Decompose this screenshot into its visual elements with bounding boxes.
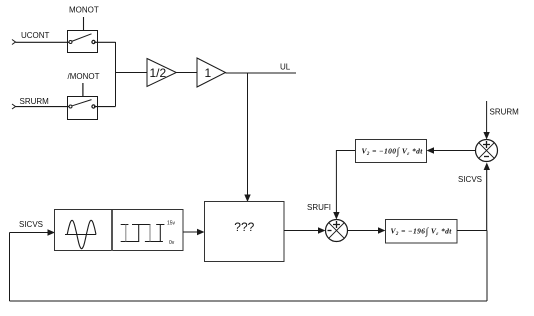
arrowhead into top summer bottom bbox=[484, 163, 490, 171]
wire join to amp A1 bbox=[116, 72, 148, 74]
wire SRURM input bbox=[16, 106, 70, 108]
wire oscillator to U1 bbox=[183, 231, 199, 233]
integrator block V2 = -196 bbox=[386, 220, 458, 244]
svg-text:SRURM: SRURM bbox=[490, 108, 520, 117]
arrowhead into summer SRUFI top bbox=[333, 212, 339, 220]
svg-text:15v: 15v bbox=[167, 221, 176, 227]
svg-text:1: 1 bbox=[205, 66, 212, 80]
svg-text:SRURM: SRURM bbox=[20, 97, 50, 106]
pulse waveform bbox=[121, 225, 165, 242]
svg-text:UL: UL bbox=[280, 63, 291, 72]
summer SRUFI bbox=[326, 220, 348, 242]
svg-text:UCONT: UCONT bbox=[21, 31, 50, 40]
summer top (SRURM - SICVS) bbox=[476, 140, 498, 162]
wire top integrator to summer SRUFI bbox=[336, 151, 356, 214]
wire SICVS to oscillator bbox=[10, 232, 50, 234]
svg-text:0v: 0v bbox=[169, 240, 175, 246]
input port SRURM bbox=[12, 104, 16, 109]
integrator block V2 = -100 bbox=[356, 140, 427, 163]
sine axis bbox=[65, 234, 96, 236]
wire MONOT control bbox=[83, 17, 85, 31]
plus sign on summer SRUFI bbox=[333, 221, 340, 228]
amp A2 gain 1 bbox=[197, 58, 226, 87]
amp A1 gain 1/2 bbox=[147, 59, 176, 87]
arrowhead into U1 left bbox=[197, 229, 205, 235]
oscillator block bbox=[55, 210, 184, 251]
wire integrator V2 output to SICVS node bbox=[457, 230, 487, 232]
sine wave bbox=[67, 220, 96, 248]
wire SICVS feedback right vertical bbox=[486, 231, 488, 302]
wire SICVS feedback left vertical bbox=[9, 233, 11, 302]
switch S1 (MONOT) bbox=[68, 31, 98, 53]
svg-text:/MONOT: /MONOT bbox=[68, 72, 100, 81]
switch S2 (/MONOT) bbox=[68, 97, 98, 120]
wire UL down to block ??? bbox=[247, 73, 249, 196]
wire U1 output to summer SRUFI bbox=[284, 230, 320, 232]
wire join vertical bbox=[115, 42, 117, 107]
minus sign on summer SRUFI bbox=[328, 230, 332, 232]
arrowhead into summer SRUFI left bbox=[318, 227, 326, 233]
arrowhead into integrator box 2 bbox=[378, 227, 386, 233]
wire SICVS feedback bottom bbox=[10, 300, 488, 302]
svg-text:SICVS: SICVS bbox=[19, 220, 43, 229]
svg-text:???: ??? bbox=[234, 220, 254, 234]
minus sign on top summer bbox=[484, 156, 489, 158]
svg-text:1/2: 1/2 bbox=[150, 66, 167, 80]
wire S1 output bbox=[94, 41, 116, 43]
wire S2 output bbox=[94, 106, 116, 108]
arrowhead into ??? top bbox=[244, 195, 250, 203]
arrowhead into integrator box 1 right bbox=[427, 147, 435, 153]
wire /MONOT control bbox=[82, 83, 84, 97]
svg-text:SRUFI: SRUFI bbox=[307, 203, 331, 212]
wire UCONT input bbox=[16, 41, 70, 43]
wire A1 to A2 bbox=[176, 72, 197, 74]
oscillator divider bbox=[111, 210, 113, 251]
arrowhead into oscillator bbox=[48, 229, 56, 235]
svg-text:MONOT: MONOT bbox=[69, 6, 99, 15]
wire SRURM down to top summer bbox=[486, 101, 488, 133]
arrowhead into top summer bbox=[483, 132, 489, 140]
block U1 ??? bbox=[205, 202, 285, 262]
wire summer SRUFI to integrator V2 bbox=[348, 230, 380, 232]
wire top summer to integrator V2=-100 bbox=[432, 150, 475, 152]
svg-text:SICVS: SICVS bbox=[458, 175, 482, 184]
wire UL bbox=[226, 72, 297, 74]
wire SICVS up to top summer bbox=[486, 169, 488, 231]
input port UCONT bbox=[12, 40, 16, 45]
plus sign on top summer bbox=[483, 141, 490, 148]
